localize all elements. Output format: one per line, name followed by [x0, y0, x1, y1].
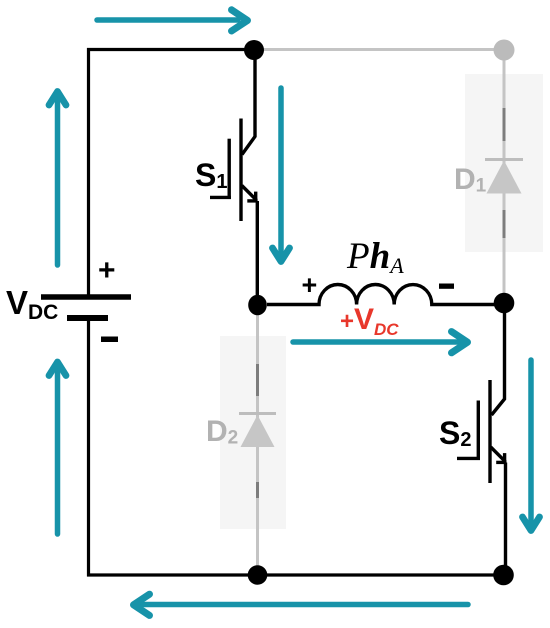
collector lead — [492, 302, 505, 415]
current arrow S2 branch (down) — [523, 360, 540, 531]
body bar — [488, 380, 491, 483]
wire left-mid vertical grey (inactive) through D2 — [256, 305, 259, 575]
gate lead — [457, 457, 480, 460]
highlight box around D2 (inactive) — [220, 336, 286, 529]
node A top (black) — [244, 40, 264, 60]
battery VDC short plate (-) — [67, 315, 108, 321]
wire left vertical lower (battery - to bottom) — [87, 318, 90, 577]
node mid-right (phase right) — [494, 293, 515, 314]
dash segment on D2 branch upper — [256, 364, 259, 396]
dash segment on D1 branch lower — [503, 210, 506, 238]
wire top-left horizontal — [87, 48, 254, 51]
transistor S2 (IGBT) — [457, 302, 506, 575]
emitter diagonal — [242, 186, 257, 201]
diode D1 (inactive) — [485, 160, 523, 194]
svg-text:+: + — [98, 254, 116, 287]
current arrow top (right) — [97, 10, 248, 31]
emitter lead — [504, 463, 507, 576]
emitter diagonal — [491, 447, 506, 462]
wire left vertical upper (top to battery +) — [87, 48, 90, 297]
dash segment on D1 branch upper — [503, 108, 506, 141]
node bottom-right — [493, 565, 514, 586]
diode D2 (inactive) — [239, 414, 276, 448]
gate lead — [210, 196, 231, 199]
emitter arrowhead S2 barbs — [496, 453, 506, 463]
node top-right (grey, inactive) — [494, 40, 515, 61]
body bar — [239, 119, 242, 222]
current arrow bottom (left) — [134, 594, 469, 615]
inductor minus sign — [439, 284, 454, 289]
inductor PhA winding — [267, 285, 495, 305]
gate bar — [477, 401, 480, 461]
wire bottom horizontal — [87, 573, 503, 576]
emitter lead — [256, 201, 259, 305]
current arrow left-upper (up) — [49, 92, 66, 266]
node mid-left (phase left) — [248, 295, 267, 316]
node bottom-mid — [248, 565, 268, 585]
dash segment on D2 branch lower — [256, 482, 259, 498]
battery minus sign — [101, 337, 118, 343]
collector lead — [242, 50, 255, 155]
current arrow left-lower (up) — [49, 362, 66, 534]
current arrow S1 branch (down) — [273, 88, 290, 262]
highlight box around D1 (inactive) — [465, 74, 543, 252]
transistor S1 (IGBT) — [210, 50, 257, 305]
current arrow phase (right, +VDC) — [293, 332, 468, 353]
wire right vertical grey (inactive) through D1 — [503, 50, 506, 302]
battery VDC long plate (+) — [41, 294, 131, 300]
wire top grey (inactive) from node A to top-right — [254, 48, 504, 51]
svg-text:+: + — [302, 270, 318, 300]
emitter arrowhead S1 barbs — [247, 192, 257, 202]
gate bar — [227, 139, 230, 199]
